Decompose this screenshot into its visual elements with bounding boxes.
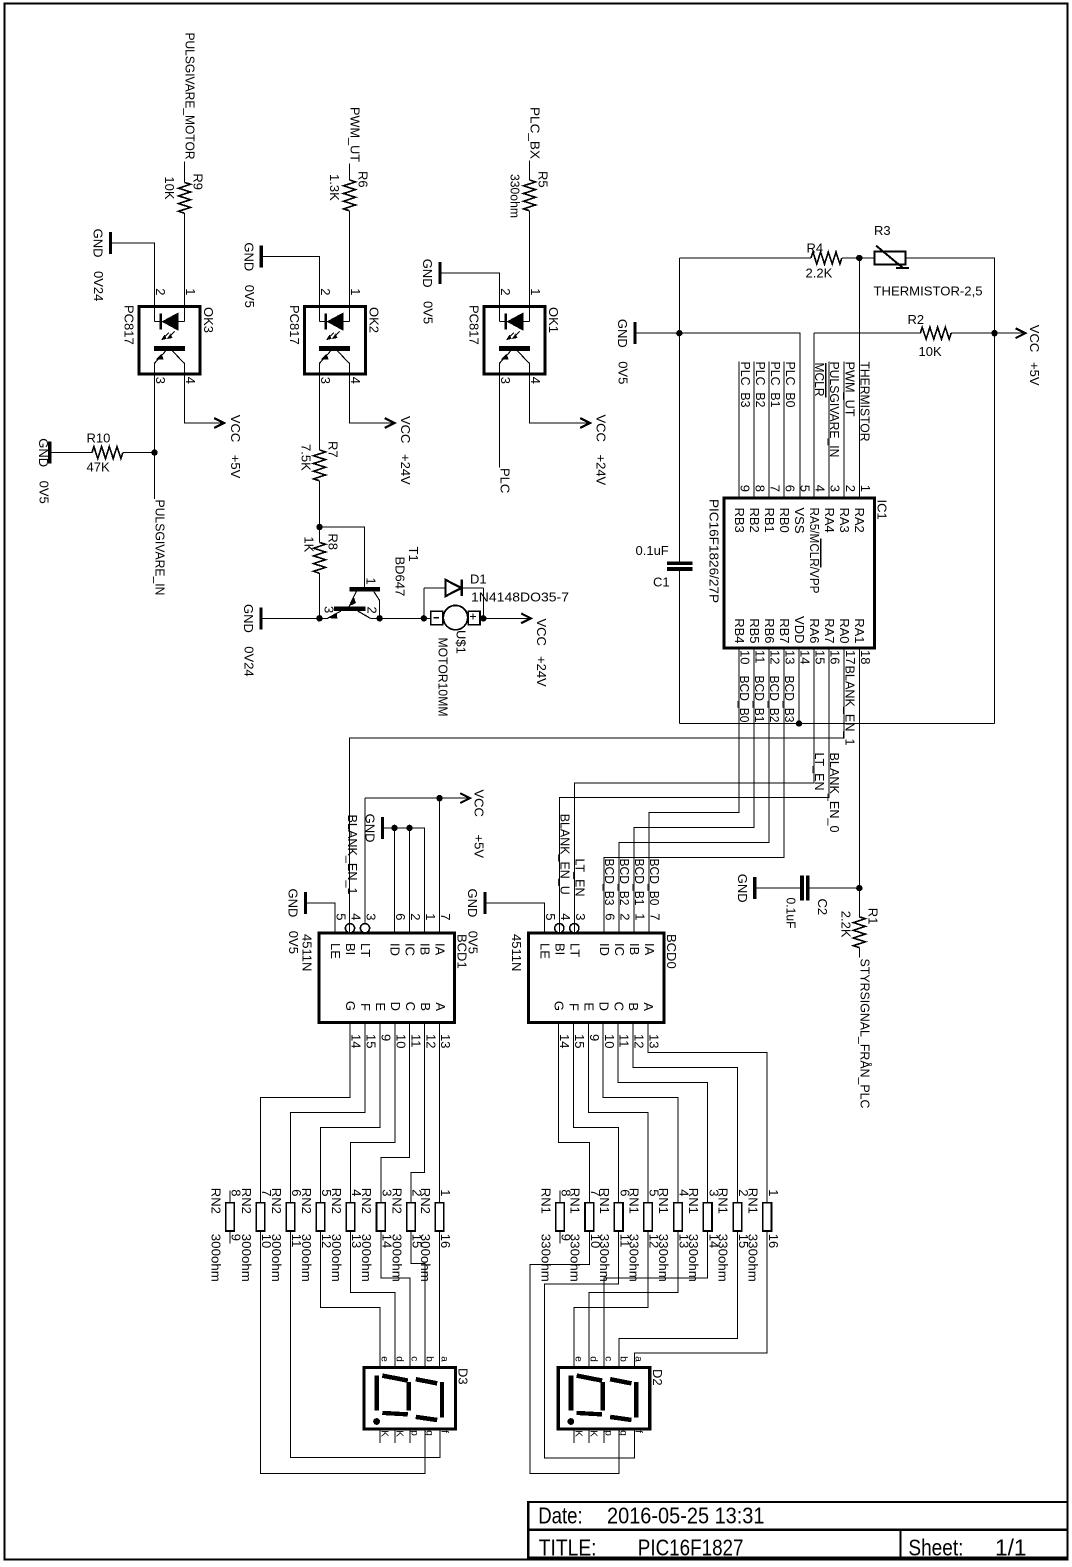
svg-text:RN1: RN1: [716, 1188, 731, 1214]
svg-text:IC: IC: [612, 943, 627, 956]
wire RN2 to D3 c: [381, 1231, 410, 1368]
svg-text:STYRSIGNAL_FRÅN_PLC: STYRSIGNAL_FRÅN_PLC: [857, 959, 872, 1109]
wire LT bubble stub (BCD0): [573, 924, 575, 933]
svg-text:RA6: RA6: [807, 618, 822, 643]
svg-text:VCC: VCC: [398, 416, 413, 443]
svg-text:10K: 10K: [919, 344, 942, 359]
svg-text:+24V: +24V: [594, 455, 609, 486]
wire RN1 to D2 a: [634, 1231, 767, 1368]
svg-text:300ohm: 300ohm: [239, 1234, 254, 1282]
svg-text:RA1: RA1: [852, 618, 867, 643]
svg-text:2: 2: [617, 913, 632, 920]
wire RN2 to D3 b: [411, 1231, 425, 1368]
svg-text:14: 14: [349, 1034, 364, 1048]
wire BCD1 F to RN2: [291, 1023, 365, 1203]
svg-text:RB3: RB3: [732, 508, 747, 533]
wire RN2 pin 8 stub: [229, 1191, 231, 1203]
wire C1 to VDD rail: [678, 571, 680, 724]
svg-text:G: G: [552, 1001, 567, 1011]
wire IC1 VDD pin: [798, 648, 800, 724]
junction IA/VCC: [436, 795, 442, 801]
resistor RN1 element 3/14 330ohm: [703, 1203, 712, 1231]
svg-text:GND: GND: [615, 319, 630, 348]
svg-text:LE: LE: [538, 943, 553, 959]
svg-text:2.2K: 2.2K: [838, 911, 853, 938]
wire OK1 pin4 to VCC: [530, 374, 588, 423]
wire PLC_B3 to IC1: [738, 362, 740, 499]
wire R9 to OK3 pin1: [184, 213, 186, 306]
wire GND to LE (BCD1): [307, 903, 335, 933]
svg-text:PULSGIVARE_MOTOR: PULSGIVARE_MOTOR: [183, 33, 198, 160]
svg-text:PIC16F1827: PIC16F1827: [638, 1534, 744, 1560]
wire GND to R10: [51, 452, 92, 454]
svg-text:BCD_B2: BCD_B2: [617, 859, 632, 906]
wire PULSGIVARE_MOTOR to R9: [184, 162, 186, 183]
IC BCD1 4511N body: [319, 933, 455, 1023]
wire BCD1 G to RN2: [261, 1023, 351, 1203]
svg-text:18: 18: [858, 650, 873, 664]
wire RN1 pin 9 stub: [559, 1231, 561, 1244]
svg-text:e: e: [378, 1356, 389, 1362]
D3 unconnected pin stub: [409, 1429, 411, 1443]
ground GND 0V24 (OK3): [109, 232, 112, 254]
svg-text:D: D: [388, 1002, 403, 1011]
svg-text:IA: IA: [433, 943, 448, 956]
VCC +24V arrow (motor): [521, 613, 531, 623]
D3 unconnected pin stub: [394, 1429, 396, 1443]
wire BCD0 B to RN1: [633, 1023, 737, 1203]
svg-text:2: 2: [153, 288, 168, 295]
junction IC: [406, 825, 412, 831]
svg-text:IA: IA: [642, 943, 657, 956]
svg-text:10: 10: [738, 650, 753, 664]
svg-text:RB6: RB6: [762, 618, 777, 643]
OK2 LED: [320, 307, 350, 331]
svg-text:0V5: 0V5: [466, 931, 481, 954]
svg-text:PLC_B2: PLC_B2: [753, 362, 768, 408]
resistor RN2 element 7/10 300ohm: [256, 1203, 265, 1231]
svg-text:A: A: [641, 1002, 656, 1011]
svg-text:RN2: RN2: [418, 1188, 433, 1214]
wire C2 to junction: [810, 887, 860, 889]
resistor R8: [314, 542, 326, 573]
wire R8 to rail: [319, 573, 321, 618]
resistor RN1 element 7/10 330ohm: [585, 1203, 594, 1231]
wire motor to VCC 24V: [483, 617, 529, 619]
ground GND 0V5 (IC1): [633, 322, 636, 344]
svg-text:RB4: RB4: [732, 618, 747, 643]
VCC +5V arrow (rail): [1016, 328, 1026, 338]
svg-text:a: a: [633, 1356, 644, 1362]
wire PULSGIVARE_IN to IC1 pin3: [828, 362, 830, 499]
svg-text:LT_EN: LT_EN: [572, 859, 587, 897]
svg-text:GND: GND: [241, 242, 256, 271]
svg-text:1: 1: [423, 913, 438, 920]
resistor RN2 element 8/9 300ohm: [226, 1203, 235, 1231]
svg-text:330ohm: 330ohm: [597, 1234, 612, 1282]
wire BCD1 A to RN2: [439, 1023, 441, 1203]
svg-text:5: 5: [334, 913, 349, 920]
ground GND 0V5 (OK2): [260, 246, 263, 268]
svg-text:R3: R3: [874, 223, 891, 238]
OK2 phototransistor: [319, 348, 350, 374]
svg-text:B: B: [418, 1002, 433, 1011]
wire R4 to R3: [842, 257, 875, 259]
svg-text:GND: GND: [735, 874, 750, 903]
svg-text:GND: GND: [420, 259, 435, 288]
svg-text:3: 3: [573, 913, 588, 920]
svg-text:C: C: [403, 1002, 418, 1011]
svg-text:G: G: [343, 1001, 358, 1011]
svg-text:TITLE:: TITLE:: [539, 1534, 597, 1560]
svg-text:6: 6: [393, 913, 408, 920]
svg-text:3: 3: [153, 377, 168, 384]
motor U$1 MOTOR10MM: [431, 605, 480, 629]
svg-text:LT: LT: [568, 943, 583, 957]
BCD0 inversion bubbles: [555, 924, 564, 933]
svg-text:BD647: BD647: [393, 557, 408, 597]
svg-text:PLC: PLC: [498, 468, 513, 493]
svg-text:A: A: [433, 1002, 448, 1011]
svg-text:10: 10: [602, 1034, 617, 1048]
D2 segments: [571, 1376, 636, 1420]
junction R4/R3/RA2: [856, 255, 862, 261]
svg-text:2016-05-25 13:31: 2016-05-25 13:31: [607, 1502, 765, 1528]
IC U1 PIC16F1826 body IC1: [724, 498, 875, 648]
svg-text:330ohm: 330ohm: [568, 1234, 583, 1282]
wire motor + out: [480, 617, 483, 619]
svg-text:R10: R10: [87, 431, 111, 446]
svg-text:3: 3: [322, 606, 337, 613]
resistor RN1 element 8/9 330ohm: [556, 1203, 565, 1231]
junction GND/C1 column: [676, 330, 682, 336]
wire BCD1 E to RN2: [321, 1023, 380, 1203]
resistor RN1 element 5/12 330ohm: [644, 1203, 653, 1231]
svg-text:R1: R1: [865, 908, 880, 925]
svg-text:ID: ID: [597, 943, 612, 956]
wire MCLR to IC1 pin4: [813, 333, 815, 498]
svg-text:c: c: [603, 1356, 614, 1361]
svg-text:f: f: [633, 1430, 644, 1433]
svg-text:14: 14: [557, 1034, 572, 1048]
wire PLC_B1 to IC1: [768, 362, 770, 499]
svg-text:VCC: VCC: [1027, 325, 1042, 352]
diode D1 1N4148: [424, 580, 484, 597]
svg-text:RB7: RB7: [777, 618, 792, 643]
svg-text:330ohm: 330ohm: [656, 1234, 671, 1282]
svg-text:GND: GND: [36, 438, 51, 467]
wire R3 to VCC rail: [906, 258, 995, 333]
resistor RN2 element 2/15 300ohm: [407, 1203, 416, 1231]
svg-text:e: e: [573, 1356, 584, 1362]
wire D1 left leg: [423, 588, 425, 618]
wire RN1 to D2 f: [544, 1231, 634, 1458]
svg-text:d: d: [393, 1356, 404, 1362]
wire D1 right leg: [482, 588, 484, 618]
svg-text:PLC_B0: PLC_B0: [783, 362, 798, 408]
svg-text:PWM_UT: PWM_UT: [348, 107, 363, 162]
svg-text:RN1: RN1: [746, 1188, 761, 1214]
wire R6 to OK2 pin1: [349, 211, 351, 307]
svg-text:VDD: VDD: [792, 616, 807, 643]
wire RN2 to D3 g: [261, 1231, 425, 1474]
svg-text:RN1: RN1: [656, 1188, 671, 1214]
wire RN1 to D2 b: [619, 1231, 737, 1368]
wire RA1 to C2/R1: [858, 648, 860, 917]
svg-text:c: c: [408, 1356, 419, 1361]
svg-text:Sheet:: Sheet:: [908, 1534, 963, 1560]
svg-text:b: b: [618, 1356, 629, 1362]
svg-text:RN2: RN2: [269, 1188, 284, 1214]
svg-text:2: 2: [318, 288, 333, 295]
wire BCD0 E to RN1: [588, 1023, 648, 1203]
wire OK2 pin3 to R7: [319, 374, 321, 450]
svg-text:5: 5: [543, 913, 558, 920]
wire to motor -: [424, 617, 431, 619]
resistor RN1 element 2/15 330ohm: [733, 1203, 742, 1231]
svg-text:47K: 47K: [87, 460, 110, 475]
svg-text:4: 4: [349, 913, 364, 920]
wire GND to IB: [384, 828, 424, 933]
svg-text:RN1: RN1: [686, 1188, 701, 1214]
OK3 LED: [155, 307, 185, 331]
svg-text:RN2: RN2: [329, 1188, 344, 1214]
wire PLC_BX to R5: [529, 161, 531, 181]
resistor RN1 element 1/16 330ohm: [763, 1203, 772, 1231]
OK2 light arrows: [327, 332, 340, 340]
wire RN2 to D3 a: [439, 1231, 441, 1368]
resistor RN2 element 4/13 300ohm: [346, 1203, 355, 1231]
capacitor C2 0.1uF: [802, 876, 808, 901]
BCD1 inversion bubbles: [345, 924, 354, 933]
resistor R10: [92, 447, 123, 459]
svg-text:PC817: PC817: [122, 305, 137, 345]
junction VCC rail: [991, 330, 997, 336]
svg-text:D: D: [596, 1002, 611, 1011]
ground GND (C2): [753, 877, 756, 899]
svg-text:1: 1: [438, 1189, 453, 1196]
svg-text:300ohm: 300ohm: [208, 1234, 223, 1282]
svg-text:1: 1: [183, 288, 198, 295]
svg-text:RA2: RA2: [852, 508, 867, 533]
svg-text:VCC: VCC: [228, 415, 243, 442]
svg-text:1: 1: [632, 913, 647, 920]
svg-text:RN1: RN1: [568, 1188, 583, 1214]
svg-text:5: 5: [798, 485, 813, 492]
svg-text:RN2: RN2: [359, 1188, 374, 1214]
svg-text:GND: GND: [465, 889, 480, 918]
svg-text:IC: IC: [403, 943, 418, 956]
svg-text:IC1: IC1: [875, 500, 890, 520]
svg-text:0V5: 0V5: [421, 301, 436, 324]
svg-text:11: 11: [617, 1034, 632, 1048]
svg-text:13: 13: [647, 1034, 662, 1048]
D2 unconnected pin stub: [573, 1429, 575, 1443]
svg-text:1/1: 1/1: [995, 1534, 1027, 1560]
svg-text:1: 1: [364, 578, 379, 585]
junction VDD: [796, 720, 802, 726]
svg-text:R9: R9: [191, 173, 206, 190]
svg-text:RN2: RN2: [389, 1188, 404, 1214]
wire base to T1: [320, 527, 365, 587]
svg-text:330ohm: 330ohm: [716, 1234, 731, 1282]
wire BCD1 C to RN2: [381, 1023, 410, 1203]
svg-text:9: 9: [379, 1034, 394, 1041]
svg-text:RN1: RN1: [597, 1188, 612, 1214]
wire VCC rail right: [994, 333, 996, 723]
wire BCD_B3 IC1 to BCD0: [604, 648, 784, 933]
svg-text:0V5: 0V5: [616, 361, 631, 384]
wire RN1 to D2 e: [574, 1231, 648, 1368]
svg-text:7.5K: 7.5K: [299, 444, 314, 471]
svg-text:300ohm: 300ohm: [299, 1234, 314, 1282]
capacitor C1 0.1uF: [667, 563, 693, 569]
wire PWM_UT to R6: [349, 164, 351, 181]
wire GND to OK3 pin2: [112, 243, 154, 307]
wire OK3 pin4 to VCC: [185, 374, 222, 423]
svg-text:GND: GND: [241, 604, 256, 633]
wire RN2 to D3 d: [351, 1231, 396, 1368]
wire BI bubble stub (BCD1): [349, 924, 351, 933]
svg-text:THERMISTOR-2,5: THERMISTOR-2,5: [874, 284, 983, 299]
svg-text:4: 4: [528, 377, 543, 384]
svg-text:RN2: RN2: [239, 1188, 254, 1214]
svg-text:330ohm: 330ohm: [626, 1234, 641, 1282]
svg-text:D1: D1: [470, 572, 487, 587]
wire BCD0 F to RN1: [573, 1023, 618, 1203]
svg-text:GND: GND: [286, 889, 301, 918]
optocoupler OK3 PC817 body: [139, 307, 200, 375]
D3 decimal point: [373, 1418, 380, 1425]
svg-text:+5V: +5V: [1027, 362, 1042, 386]
svg-text:12: 12: [768, 650, 783, 664]
svg-text:VSS: VSS: [792, 508, 807, 534]
wire GND rail to emitter: [263, 617, 328, 619]
svg-text:1: 1: [766, 1189, 781, 1196]
svg-text:g: g: [423, 1430, 434, 1436]
resistor RN2 element 3/14 300ohm: [377, 1203, 386, 1231]
svg-text:R4: R4: [807, 241, 824, 256]
D2 unconnected pin stub: [603, 1429, 605, 1443]
title block frame: [528, 1502, 1067, 1558]
wire VDD rail: [679, 723, 994, 725]
IC BCD0 4511N body: [529, 933, 665, 1023]
wire R5 to OK1 pin1: [529, 211, 531, 307]
wire BCD_B0 IC1 to BCD0: [649, 648, 739, 933]
wire GND to OK1 pin2: [442, 273, 500, 307]
svg-text:0V5: 0V5: [286, 931, 301, 954]
wire IC down: [409, 828, 411, 933]
OK1 LED: [500, 307, 530, 331]
svg-text:PLC_BX: PLC_BX: [528, 107, 543, 159]
OK3 light arrows: [162, 332, 175, 340]
resistor RN2 element 5/12 300ohm: [316, 1203, 325, 1231]
wire OK1 pin3 PLC: [499, 374, 501, 467]
svg-text:R2: R2: [908, 312, 925, 327]
resistor R1: [853, 917, 865, 948]
ground GND 0V5 (BCD0 LE): [483, 892, 486, 914]
svg-text:1: 1: [528, 288, 543, 295]
junction C2/R1: [856, 885, 862, 891]
resistor R9: [179, 182, 191, 213]
svg-text:RA3: RA3: [837, 508, 852, 533]
svg-text:0V24: 0V24: [242, 646, 257, 676]
resistor RN2 element 6/11 300ohm: [286, 1203, 295, 1231]
svg-text:RB0: RB0: [777, 508, 792, 533]
svg-text:300ohm: 300ohm: [269, 1234, 284, 1282]
svg-text:15: 15: [572, 1034, 587, 1048]
OK3 phototransistor: [154, 348, 185, 374]
svg-text:+24V: +24V: [534, 656, 549, 687]
svg-text:BCD_B0: BCD_B0: [647, 859, 662, 906]
svg-text:0V5: 0V5: [37, 481, 52, 504]
svg-text:IB: IB: [627, 943, 642, 955]
svg-text:1.3K: 1.3K: [327, 174, 342, 201]
svg-text:10K: 10K: [162, 176, 177, 199]
svg-text:1: 1: [348, 288, 363, 295]
svg-text:17: 17: [843, 650, 858, 664]
svg-text:B: B: [626, 1002, 641, 1011]
IC1 MCLR overline (pin name): [820, 539, 822, 568]
svg-text:OK3: OK3: [201, 307, 216, 333]
wire RN1 to D2 d: [589, 1231, 678, 1368]
resistor R7: [314, 450, 326, 481]
wire R1 to label: [858, 948, 860, 958]
resistor RN1 element 4/13 330ohm: [674, 1203, 683, 1231]
wire BI bubble stub (BCD0): [558, 924, 560, 933]
wire RN1 pin 8 stub: [559, 1191, 561, 1203]
junction R8/rail: [316, 615, 322, 621]
wire BLANK_EN_1 net: [350, 648, 845, 924]
wire RN2 pin 9 stub: [229, 1231, 231, 1244]
wire THERMISTOR to IC1 pin1: [858, 258, 860, 498]
wire RN2 to D3 f: [291, 1231, 440, 1458]
svg-text:BLANK_EN_0: BLANK_EN_0: [827, 753, 842, 833]
svg-text:8: 8: [753, 485, 768, 492]
wire ID down: [394, 828, 396, 933]
optocoupler OK1 PC817 body: [484, 307, 545, 375]
thermistor R3: [875, 246, 910, 269]
svg-text:4: 4: [558, 913, 573, 920]
wire PWM_UT to IC1 pin2: [843, 362, 845, 499]
svg-text:RN1: RN1: [626, 1188, 641, 1214]
VCC +5V arrow (OK3): [214, 418, 224, 428]
svg-text:VCC: VCC: [472, 790, 487, 817]
svg-text:14: 14: [798, 650, 813, 664]
wire BCD_B1 IC1 to BCD0: [634, 648, 754, 933]
svg-text:1N4148DO35-7: 1N4148DO35-7: [471, 590, 569, 605]
svg-text:16: 16: [828, 650, 843, 664]
resistor R5: [524, 180, 536, 211]
svg-text:RN1: RN1: [538, 1188, 553, 1214]
svg-text:IB: IB: [418, 943, 433, 955]
svg-text:BCD_B3: BCD_B3: [602, 859, 617, 906]
svg-text:BLANK_EN_U: BLANK_EN_U: [557, 814, 572, 895]
svg-text:2: 2: [365, 607, 380, 614]
svg-text:6: 6: [783, 485, 798, 492]
ground GND (BCD1 inputs): [381, 817, 384, 839]
svg-text:LT: LT: [358, 943, 373, 957]
svg-text:C1: C1: [653, 575, 670, 590]
svg-text:R6: R6: [356, 171, 371, 188]
svg-text:ID: ID: [388, 943, 403, 956]
ground GND 0V5 (OK1): [438, 262, 441, 284]
svg-text:3: 3: [498, 377, 513, 384]
svg-text:300ohm: 300ohm: [329, 1234, 344, 1282]
svg-text:+5V: +5V: [472, 835, 487, 859]
wire BCD0 A to RN1: [648, 1023, 767, 1203]
svg-text:9: 9: [587, 1034, 602, 1041]
